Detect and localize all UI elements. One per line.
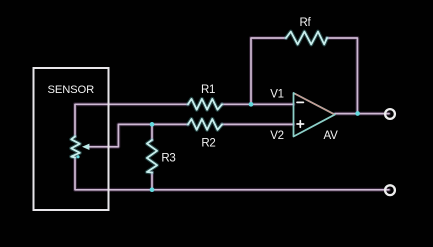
svg-text:R1: R1 xyxy=(201,84,215,96)
svg-text:AV: AV xyxy=(324,130,339,142)
svg-text:V1: V1 xyxy=(270,88,283,100)
svg-text:R3: R3 xyxy=(161,152,175,164)
svg-text:R2: R2 xyxy=(201,137,215,149)
svg-text:SENSOR: SENSOR xyxy=(47,84,94,96)
svg-text:Rf: Rf xyxy=(300,17,312,29)
svg-text:V2: V2 xyxy=(270,130,283,142)
